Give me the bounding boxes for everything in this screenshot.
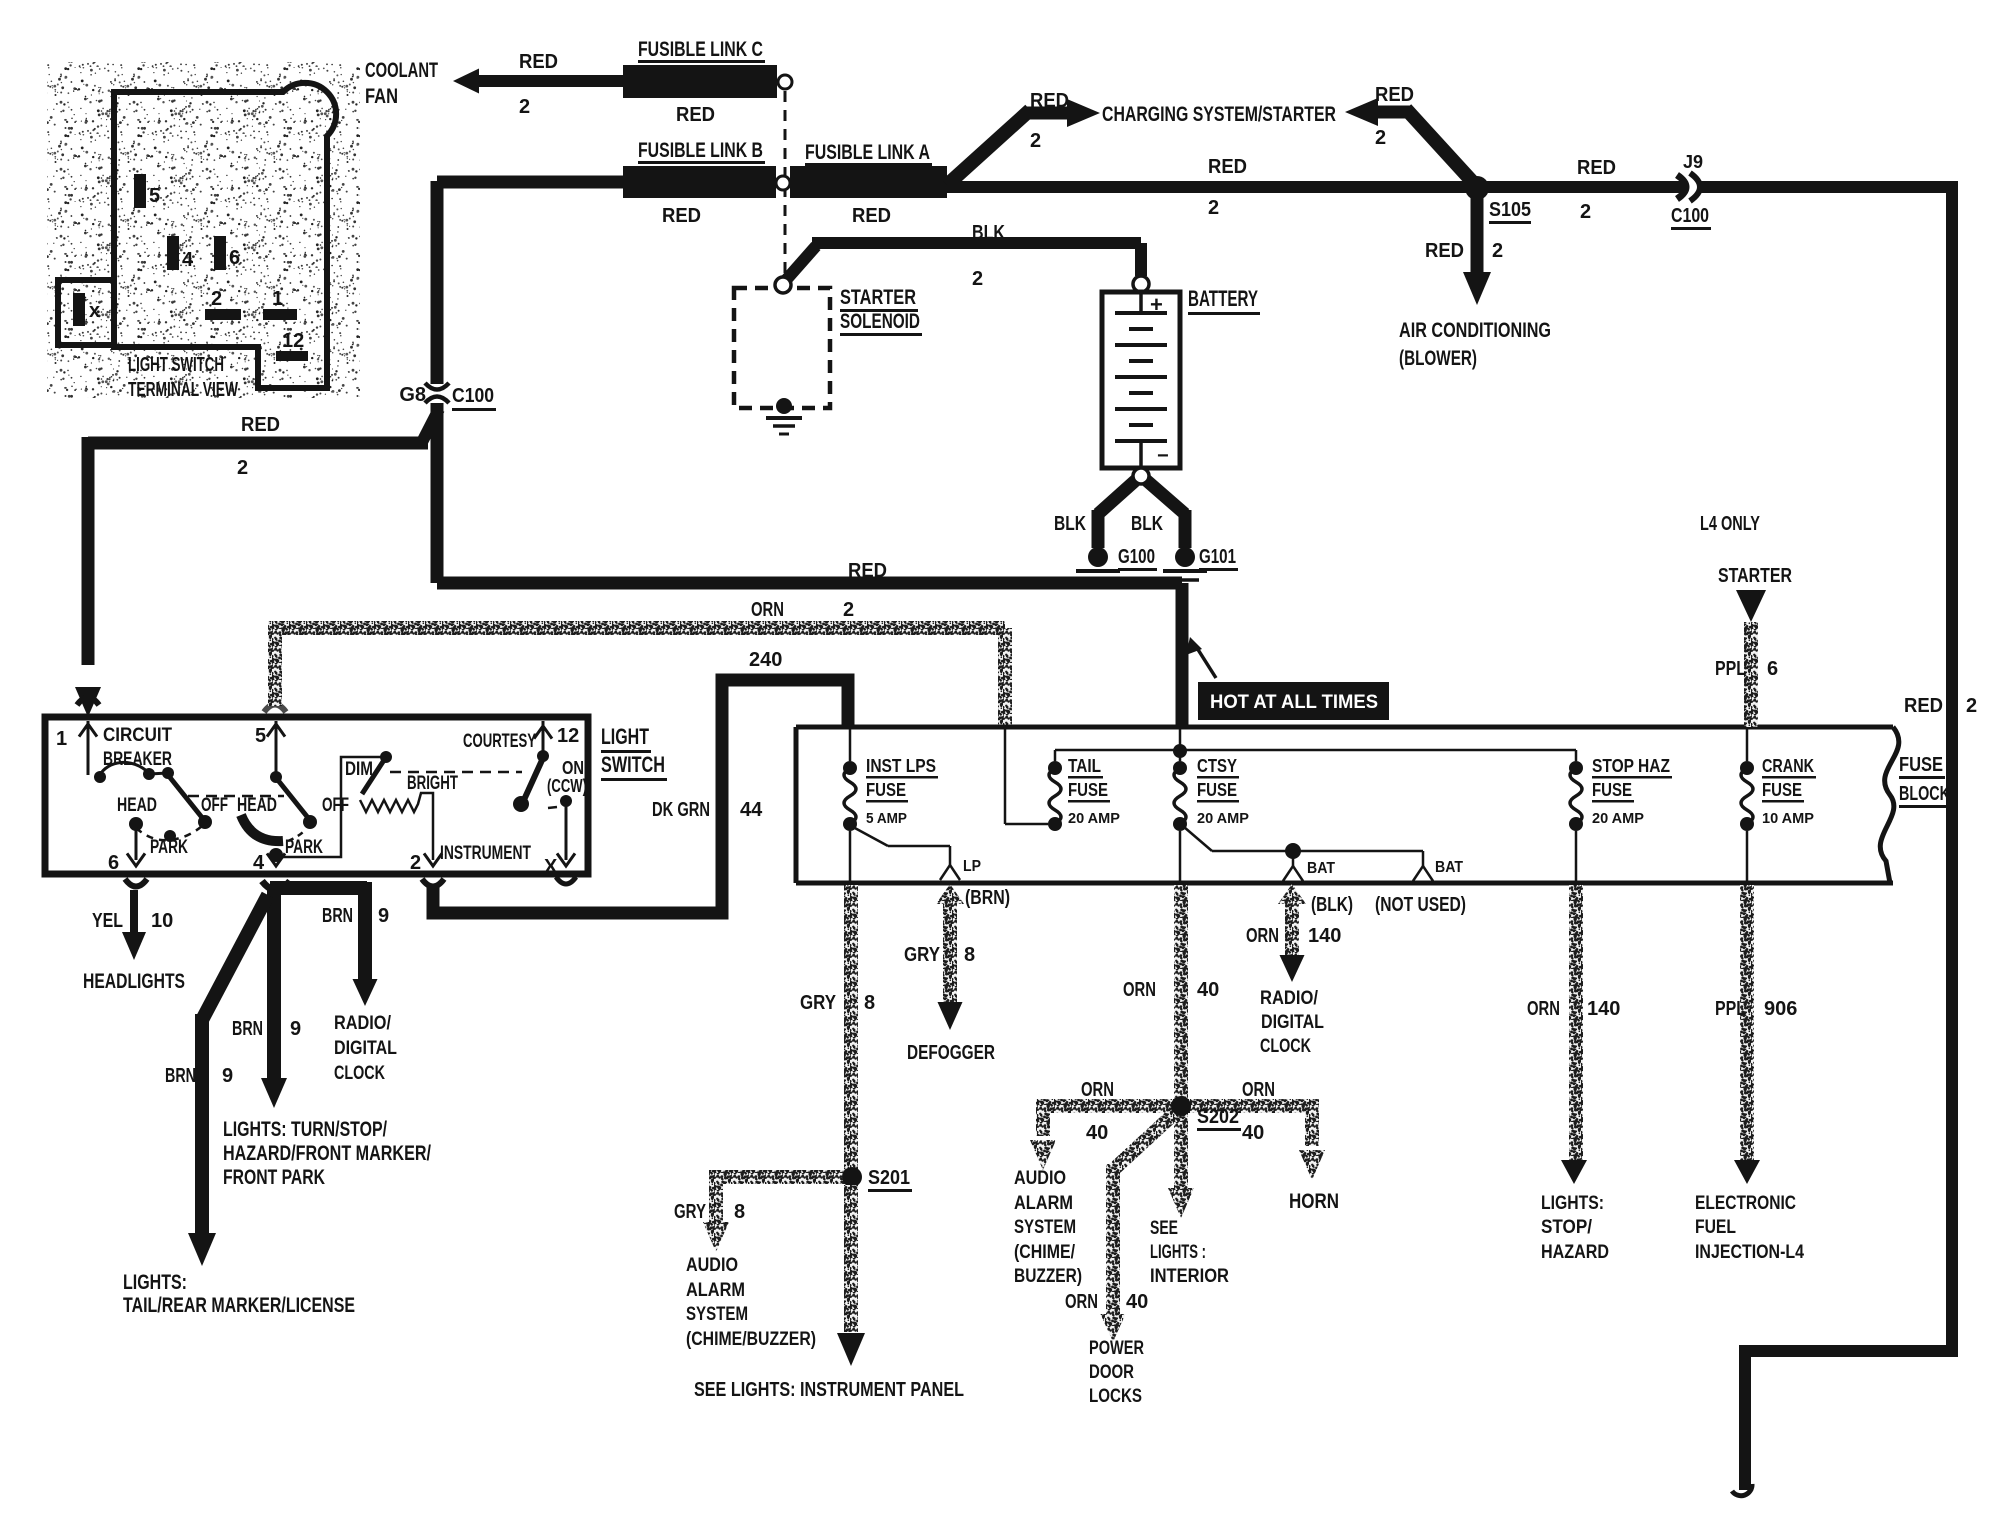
- svg-text:ORN: ORN: [1242, 1079, 1275, 1101]
- svg-text:HEAD: HEAD: [237, 795, 277, 816]
- svg-text:HORN: HORN: [1289, 1190, 1339, 1213]
- svg-text:12: 12: [282, 330, 304, 352]
- svg-text:LIGHTS: TURN/STOP/: LIGHTS: TURN/STOP/: [223, 1118, 387, 1141]
- svg-text:SYSTEM: SYSTEM: [686, 1304, 748, 1325]
- svg-text:ON: ON: [562, 758, 584, 778]
- svg-text:C100: C100: [1671, 205, 1709, 227]
- svg-text:1: 1: [272, 288, 283, 310]
- svg-text:CRANK: CRANK: [1762, 756, 1814, 776]
- svg-text:2: 2: [211, 288, 222, 310]
- svg-text:DK GRN: DK GRN: [652, 799, 710, 821]
- svg-text:PPL: PPL: [1715, 658, 1746, 680]
- svg-text:RED: RED: [1030, 90, 1069, 112]
- svg-text:LIGHTS :: LIGHTS :: [1150, 1242, 1206, 1263]
- svg-text:J9: J9: [1683, 152, 1703, 172]
- svg-text:RED: RED: [662, 205, 701, 227]
- svg-text:INST LPS: INST LPS: [866, 756, 936, 776]
- svg-text:ALARM: ALARM: [686, 1280, 745, 1301]
- svg-text:ALARM: ALARM: [1014, 1193, 1073, 1214]
- svg-text:RED: RED: [676, 104, 715, 126]
- svg-text:L4 ONLY: L4 ONLY: [1700, 513, 1760, 535]
- svg-text:BATTERY: BATTERY: [1188, 286, 1258, 311]
- svg-text:RED: RED: [1208, 156, 1247, 178]
- svg-text:FUSE: FUSE: [866, 780, 906, 800]
- svg-text:140: 140: [1308, 925, 1341, 947]
- svg-text:G100: G100: [1118, 546, 1155, 568]
- svg-text:BRN: BRN: [165, 1065, 196, 1087]
- svg-text:DIM: DIM: [345, 759, 373, 780]
- svg-text:BLK: BLK: [1131, 513, 1163, 535]
- svg-text:BLK: BLK: [972, 222, 1005, 244]
- svg-text:2: 2: [410, 852, 421, 874]
- svg-text:ORN: ORN: [1246, 925, 1279, 947]
- svg-text:LP: LP: [963, 858, 981, 875]
- svg-text:2: 2: [843, 599, 854, 621]
- svg-text:LIGHTS:: LIGHTS:: [123, 1271, 187, 1294]
- svg-text:BUZZER): BUZZER): [1014, 1266, 1082, 1287]
- svg-text:STOP/: STOP/: [1541, 1217, 1593, 1238]
- svg-text:40: 40: [1126, 1291, 1148, 1313]
- svg-text:2: 2: [237, 457, 248, 479]
- svg-text:(CHIME/: (CHIME/: [1014, 1242, 1076, 1263]
- svg-text:(BRN): (BRN): [965, 887, 1010, 909]
- svg-text:COURTESY: COURTESY: [463, 731, 536, 752]
- svg-text:8: 8: [734, 1201, 745, 1223]
- svg-text:LIGHTS:: LIGHTS:: [1541, 1193, 1604, 1214]
- svg-text:RADIO/: RADIO/: [334, 1013, 392, 1034]
- svg-text:9: 9: [290, 1018, 301, 1040]
- svg-text:G8: G8: [399, 384, 426, 406]
- svg-text:DIGITAL: DIGITAL: [334, 1038, 397, 1059]
- svg-text:LIGHT SWITCH: LIGHT SWITCH: [128, 354, 224, 376]
- svg-text:GRY: GRY: [674, 1201, 706, 1223]
- svg-text:(CHIME/BUZZER): (CHIME/BUZZER): [686, 1329, 816, 1350]
- svg-text:SYSTEM: SYSTEM: [1014, 1217, 1076, 1238]
- svg-text:BAT: BAT: [1307, 860, 1335, 877]
- svg-text:BLOCK: BLOCK: [1899, 783, 1950, 805]
- svg-text:(BLOWER): (BLOWER): [1399, 347, 1477, 370]
- svg-text:STARTER: STARTER: [1718, 565, 1792, 587]
- svg-text:CHARGING SYSTEM/STARTER: CHARGING SYSTEM/STARTER: [1102, 103, 1336, 126]
- svg-text:40: 40: [1197, 979, 1219, 1001]
- svg-text:1: 1: [56, 728, 67, 750]
- svg-text:S202: S202: [1197, 1106, 1239, 1128]
- svg-text:C100: C100: [452, 385, 494, 407]
- svg-text:9: 9: [378, 905, 389, 927]
- svg-text:AUDIO: AUDIO: [686, 1255, 738, 1276]
- svg-text:HEADLIGHTS: HEADLIGHTS: [83, 970, 185, 993]
- svg-text:9: 9: [222, 1065, 233, 1087]
- svg-text:COOLANT: COOLANT: [365, 59, 438, 82]
- svg-text:INJECTION-L4: INJECTION-L4: [1695, 1242, 1804, 1263]
- svg-text:40: 40: [1242, 1122, 1264, 1144]
- svg-text:G101: G101: [1199, 546, 1236, 568]
- svg-text:2: 2: [1966, 695, 1977, 717]
- svg-text:2: 2: [1208, 197, 1219, 219]
- svg-text:2: 2: [1492, 240, 1503, 262]
- svg-text:TERMINAL VIEW: TERMINAL VIEW: [128, 379, 238, 401]
- svg-text:STARTER: STARTER: [840, 286, 916, 309]
- svg-text:BRN: BRN: [232, 1018, 263, 1040]
- svg-text:8: 8: [964, 944, 975, 966]
- svg-text:LIGHT: LIGHT: [601, 724, 649, 749]
- svg-text:OFF: OFF: [322, 795, 349, 816]
- svg-text:2: 2: [1375, 127, 1386, 149]
- svg-text:CLOCK: CLOCK: [1260, 1036, 1311, 1057]
- svg-text:SEE LIGHTS: INSTRUMENT PANEL: SEE LIGHTS: INSTRUMENT PANEL: [694, 1379, 964, 1401]
- svg-text:FUSE: FUSE: [1592, 780, 1632, 800]
- svg-text:DIGITAL: DIGITAL: [1261, 1012, 1324, 1033]
- svg-text:HOT AT ALL TIMES: HOT AT ALL TIMES: [1210, 692, 1378, 713]
- svg-text:RED: RED: [1577, 157, 1616, 179]
- svg-text:(CCW): (CCW): [547, 776, 587, 796]
- svg-text:ELECTRONIC: ELECTRONIC: [1695, 1193, 1796, 1214]
- svg-text:RADIO/: RADIO/: [1260, 988, 1319, 1009]
- svg-text:6: 6: [229, 247, 240, 269]
- svg-text:5: 5: [255, 725, 266, 747]
- svg-text:PARK: PARK: [150, 837, 188, 858]
- svg-text:AUDIO: AUDIO: [1014, 1168, 1066, 1189]
- svg-text:906: 906: [1764, 998, 1797, 1020]
- svg-text:TAIL/REAR MARKER/LICENSE: TAIL/REAR MARKER/LICENSE: [123, 1294, 355, 1317]
- svg-text:2: 2: [972, 268, 983, 290]
- svg-text:RED: RED: [1904, 695, 1943, 717]
- svg-text:ORN: ORN: [1065, 1291, 1098, 1313]
- svg-text:FUSE: FUSE: [1762, 780, 1802, 800]
- svg-text:140: 140: [1587, 998, 1620, 1020]
- svg-text:S201: S201: [868, 1167, 910, 1189]
- svg-text:GRY: GRY: [800, 992, 837, 1014]
- svg-text:20 AMP: 20 AMP: [1068, 810, 1120, 827]
- svg-text:INTERIOR: INTERIOR: [1150, 1266, 1229, 1287]
- svg-text:AIR CONDITIONING: AIR CONDITIONING: [1399, 319, 1551, 342]
- svg-text:240: 240: [749, 649, 782, 671]
- svg-text:TAIL: TAIL: [1068, 756, 1101, 776]
- svg-text:ORN: ORN: [751, 599, 784, 621]
- svg-text:HEAD: HEAD: [117, 795, 157, 816]
- svg-text:RED: RED: [519, 51, 558, 73]
- svg-text:BAT: BAT: [1435, 859, 1463, 876]
- svg-text:POWER: POWER: [1089, 1338, 1144, 1359]
- svg-text:HAZARD/FRONT MARKER/: HAZARD/FRONT MARKER/: [223, 1142, 431, 1165]
- svg-text:X: X: [544, 856, 558, 878]
- svg-text:2: 2: [1580, 201, 1591, 223]
- svg-text:5: 5: [149, 185, 160, 207]
- svg-text:x: x: [89, 300, 100, 322]
- svg-text:RED: RED: [1425, 240, 1464, 262]
- svg-text:STOP HAZ: STOP HAZ: [1592, 756, 1670, 776]
- svg-text:FUSIBLE LINK B: FUSIBLE LINK B: [638, 139, 763, 162]
- svg-text:INSTRUMENT: INSTRUMENT: [440, 843, 531, 864]
- svg-text:BRN: BRN: [322, 905, 353, 927]
- svg-text:ORN: ORN: [1081, 1079, 1114, 1101]
- svg-text:DEFOGGER: DEFOGGER: [907, 1042, 995, 1064]
- svg-text:FUSIBLE LINK A: FUSIBLE LINK A: [805, 141, 930, 164]
- svg-text:FRONT PARK: FRONT PARK: [223, 1166, 325, 1189]
- svg-text:LOCKS: LOCKS: [1089, 1386, 1142, 1407]
- svg-text:ORN: ORN: [1123, 979, 1156, 1001]
- svg-text:−: −: [1157, 445, 1169, 467]
- svg-text:YEL: YEL: [92, 910, 123, 932]
- svg-text:PPL: PPL: [1715, 998, 1746, 1020]
- svg-text:RED: RED: [241, 414, 280, 436]
- svg-text:(NOT USED): (NOT USED): [1375, 894, 1466, 916]
- svg-text:6: 6: [1767, 658, 1778, 680]
- svg-text:20 AMP: 20 AMP: [1592, 810, 1644, 827]
- svg-text:FUSE: FUSE: [1899, 754, 1943, 776]
- svg-text:GRY: GRY: [904, 944, 941, 966]
- svg-text:ORN: ORN: [1527, 998, 1560, 1020]
- svg-text:12: 12: [557, 725, 579, 747]
- svg-text:BLK: BLK: [1054, 513, 1086, 535]
- svg-text:8: 8: [864, 992, 875, 1014]
- svg-text:SEE: SEE: [1150, 1218, 1178, 1239]
- svg-text:20 AMP: 20 AMP: [1197, 810, 1249, 827]
- svg-text:SOLENOID: SOLENOID: [840, 310, 920, 333]
- svg-text:SWITCH: SWITCH: [601, 752, 665, 777]
- svg-text:DOOR: DOOR: [1089, 1362, 1134, 1383]
- svg-text:BRIGHT: BRIGHT: [407, 773, 458, 794]
- svg-text:RED: RED: [852, 205, 891, 227]
- svg-text:4: 4: [253, 852, 265, 874]
- svg-text:5 AMP: 5 AMP: [866, 810, 907, 827]
- svg-text:RED: RED: [1375, 84, 1414, 106]
- svg-text:FUEL: FUEL: [1695, 1217, 1736, 1238]
- svg-text:FAN: FAN: [365, 85, 398, 108]
- svg-text:40: 40: [1086, 1122, 1108, 1144]
- svg-text:OFF: OFF: [201, 795, 228, 816]
- svg-text:10 AMP: 10 AMP: [1762, 810, 1814, 827]
- svg-text:2: 2: [519, 96, 530, 118]
- svg-text:RED: RED: [848, 560, 887, 582]
- svg-text:PARK: PARK: [285, 837, 323, 858]
- svg-text:44: 44: [740, 799, 763, 821]
- svg-text:HAZARD: HAZARD: [1541, 1242, 1609, 1263]
- svg-text:2: 2: [1030, 130, 1041, 152]
- svg-text:CLOCK: CLOCK: [334, 1063, 385, 1084]
- svg-text:4: 4: [182, 249, 194, 271]
- svg-text:10: 10: [151, 910, 173, 932]
- svg-text:FUSE: FUSE: [1068, 780, 1108, 800]
- svg-text:FUSE: FUSE: [1197, 780, 1237, 800]
- svg-text:CIRCUIT: CIRCUIT: [103, 725, 172, 746]
- svg-text:S105: S105: [1489, 199, 1531, 221]
- svg-text:FUSIBLE LINK C: FUSIBLE LINK C: [638, 38, 763, 61]
- svg-text:6: 6: [108, 852, 119, 874]
- svg-text:CTSY: CTSY: [1197, 756, 1237, 776]
- svg-text:(BLK): (BLK): [1311, 894, 1353, 916]
